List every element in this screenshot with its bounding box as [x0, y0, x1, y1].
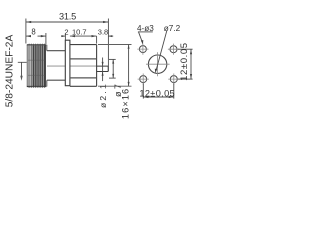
dim 3.8 — [96, 36, 98, 44]
svg-text:2: 2 — [64, 28, 68, 37]
thread runout step — [46, 45, 48, 51]
dim 10.7 — [70, 35, 97, 37]
big hole ø7.2 — [148, 55, 166, 73]
svg-text:10.7: 10.7 — [72, 28, 87, 37]
face view — [137, 24, 193, 99]
small hole top-left — [139, 46, 146, 53]
svg-text:3.8: 3.8 — [98, 28, 108, 37]
svg-text:5/8-24UNEF-2A: 5/8-24UNEF-2A — [4, 35, 15, 108]
small hole top-right — [170, 46, 177, 53]
thread crest serration bottom — [28, 86, 46, 87]
faint center contact line — [47, 65, 97, 67]
dim ø7 — [109, 58, 116, 60]
side view — [4, 11, 131, 119]
dim 12±0.05 bottom — [142, 83, 144, 98]
dim ø2.1 (pin) — [102, 58, 104, 82]
neck cylinder — [47, 50, 66, 52]
svg-text:16×16: 16×16 — [121, 88, 131, 119]
threaded section (hatched) — [28, 45, 46, 86]
small hole bottom-right — [170, 76, 177, 83]
dim 12±0.05 right — [178, 48, 193, 50]
thread leader — [18, 62, 27, 78]
svg-text:12±0.05: 12±0.05 — [139, 88, 175, 98]
svg-text:31.5: 31.5 — [59, 11, 76, 21]
rear body — [70, 45, 97, 87]
flange (side) — [65, 40, 70, 85]
pin — [97, 66, 109, 71]
dim 8 — [45, 33, 47, 44]
svg-text:12±0.05: 12±0.05 — [179, 42, 190, 80]
svg-text:8: 8 — [31, 27, 35, 36]
dim 2 — [64, 34, 66, 41]
dim 31.5 — [25, 19, 27, 44]
small hole bottom-left — [140, 76, 147, 83]
dim 16x16 — [98, 44, 132, 46]
thread crest serration top — [28, 44, 46, 45]
